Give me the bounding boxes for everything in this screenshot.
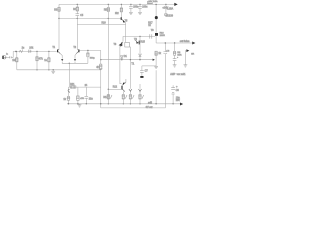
wire x140 above cup	[139, 84, 141, 89]
node dot line1 x108	[108, 18, 109, 19]
wire cup to glyph x130	[129, 91, 131, 94]
node dot x87.9	[87, 50, 88, 51]
svg-text:C8: C8	[176, 89, 180, 92]
shunt comp x37	[36, 51, 38, 56]
svg-text:R10: R10	[102, 23, 107, 25]
wire box bottom to line y59.7	[129, 47, 130, 60]
svg-text:R3: R3	[54, 9, 58, 11]
node dot y103.8 x173	[172, 103, 173, 104]
capacitor C in marks	[10, 56, 11, 58]
svg-text:R12: R12	[113, 86, 118, 88]
svg-text:AMP: AMP	[170, 73, 175, 76]
node dot bus x37	[36, 69, 37, 70]
svg-text:22u: 22u	[89, 98, 94, 101]
wire x68.5	[68, 87, 70, 96]
preset arrow x123.3	[125, 95, 127, 99]
transistor Q1	[121, 17, 128, 22]
svg-text:100n: 100n	[133, 7, 139, 9]
transistor T9 dark blob	[155, 33, 158, 36]
svg-text:15R: 15R	[177, 54, 181, 56]
svg-text:vox mk1: vox mk1	[177, 73, 187, 76]
capacitor x142	[140, 71, 144, 73]
resistor x156 mid	[155, 51, 158, 55]
capacitor x174.6	[174, 55, 176, 58]
svg-text:4k7: 4k7	[96, 66, 101, 69]
wire x156.4 lower	[155, 70, 157, 104]
svg-text:fused: fused	[147, 3, 153, 5]
svg-text:100u: 100u	[142, 7, 148, 9]
transistor arrow cup x130	[129, 89, 132, 92]
wire x156 from rail	[155, 4, 157, 16]
resistor x100.75	[100, 60, 102, 64]
svg-text:330p: 330p	[90, 58, 96, 60]
transistor T2 diff right	[76, 49, 79, 54]
node dot y43 x174.6	[174, 42, 175, 43]
capacitor C2 rail x131	[130, 4, 132, 6]
wire D1 stub	[121, 58, 123, 60]
wire T2 base line y50.5	[80, 51, 101, 60]
wire tail down	[68, 63, 70, 87]
resistor x174.6	[174, 43, 176, 51]
capacitor output C9 x173	[171, 86, 178, 90]
emitter resistor x140	[138, 95, 141, 100]
wire to rail	[139, 99, 141, 104]
transistor T7 dark blob	[155, 16, 158, 19]
squiggle cap x19-22	[19, 49, 22, 52]
wire C2 to gnd	[130, 8, 132, 12]
wire connector lead	[6, 56, 9, 58]
gap in x165 vertical for cap	[164, 52, 166, 54]
wire Q1 emitter down to box	[125, 22, 127, 42]
preset arrow x140	[142, 95, 144, 99]
svg-text:T8: T8	[134, 38, 137, 41]
node dot input x48.9	[48, 51, 49, 52]
svg-text:2k2: 2k2	[115, 13, 119, 15]
wire y65.9 line	[142, 65, 156, 67]
node dot bus gnd x53.2	[53, 69, 54, 70]
ground block	[79, 103, 81, 106]
wire C3 to gnd	[139, 8, 141, 12]
wire x77 column	[76, 4, 78, 7]
svg-text:1k: 1k	[63, 98, 66, 101]
shunt resistor x16.8	[16, 51, 18, 57]
wire to rail	[129, 99, 131, 104]
svg-text:470: 470	[80, 98, 84, 100]
cap x87.9	[87, 51, 89, 53]
svg-text:8R: 8R	[191, 53, 194, 55]
resistor x108 bottom	[107, 95, 110, 100]
node dot rail x108	[108, 4, 109, 5]
svg-text:out 8ohm: out 8ohm	[180, 40, 190, 43]
wire line1 y18.4	[59, 17, 121, 19]
wire x108 column top	[107, 4, 109, 7]
comp x77.9	[77, 87, 79, 96]
node dot	[77, 103, 78, 104]
node dot line1 x59	[58, 18, 59, 19]
svg-text:0.25A: 0.25A	[167, 8, 174, 11]
svg-text:BD139: BD139	[166, 14, 174, 17]
comp x68.5	[67, 96, 70, 100]
svg-text:T1: T1	[52, 47, 55, 49]
wire x156 mid	[155, 19, 157, 32]
wire T1 emitter	[60, 54, 62, 59]
wire cup to glyph x140	[139, 91, 141, 94]
wire line y59.7	[101, 59, 154, 61]
svg-text:1n: 1n	[44, 59, 47, 62]
wire to corner up	[11, 51, 13, 57]
wire ground bus y69.8	[17, 69, 101, 71]
wire to rail	[122, 99, 124, 104]
emitter resistor x123.3	[122, 95, 125, 100]
wire C1 down through line1 to line2 corner	[76, 16, 78, 25]
ground bus symbol	[52, 70, 54, 71]
svg-text:0V out: 0V out	[146, 106, 153, 109]
wire corner x123 down	[122, 36, 124, 41]
svg-text:T1: T1	[131, 62, 134, 65]
emitter arrow T2	[74, 59, 76, 61]
node dot input x37	[36, 51, 37, 52]
svg-text:R13: R13	[103, 97, 108, 99]
svg-text:D1: D1	[124, 55, 128, 58]
marks below C9	[172, 92, 175, 94]
wire tail bus	[62, 62, 88, 64]
wire D2 to line y59.7	[139, 56, 141, 59]
wire input line y51.4	[13, 50, 57, 52]
comp x86.3	[85, 87, 87, 96]
ground x185.4	[184, 65, 188, 67]
svg-text:T5: T5	[125, 21, 128, 23]
node dot bus x48.9	[48, 69, 49, 70]
wire y36.4 line	[123, 35, 155, 37]
svg-text:2u: 2u	[22, 47, 25, 50]
wire Q2 emitter down x120	[120, 47, 122, 84]
preset arrow x108	[110, 95, 112, 99]
svg-text:C5: C5	[80, 15, 84, 17]
plus marks cap	[177, 57, 178, 58]
svg-text:in: in	[6, 54, 8, 56]
svg-text:1k: 1k	[148, 25, 151, 27]
node dot rail x156	[155, 4, 156, 5]
wire lower rail y107.9	[101, 43, 166, 108]
node dot y59.7 x122	[121, 59, 122, 60]
node dot rail x131	[130, 4, 131, 5]
svg-text:T2: T2	[73, 47, 76, 49]
wire x59 down to T1	[58, 11, 60, 49]
resistor R5	[107, 8, 110, 12]
arrow tag x186	[186, 49, 189, 52]
svg-text:R11: R11	[70, 83, 75, 86]
wire x130 column down	[129, 60, 131, 89]
transistor T1 diff left	[58, 49, 61, 54]
emitter resistor x130	[129, 95, 132, 100]
svg-text:C7: C7	[145, 70, 149, 73]
left block top line y87.1	[69, 86, 101, 88]
plate dash x16.8	[15, 51, 17, 52]
arrow end y103.8	[180, 103, 183, 106]
wire to gnd	[174, 61, 176, 65]
node dot y59.7 x100.75	[100, 59, 101, 60]
wire C9 to rail	[172, 94, 174, 104]
dark bar tag x142	[140, 76, 143, 78]
svg-text:C6: C6	[166, 50, 170, 52]
transistor arrow cup x140	[139, 89, 142, 92]
ground x156	[154, 66, 158, 68]
capacitor C3 rail x140	[139, 4, 141, 6]
resistor R2	[76, 7, 79, 11]
svg-text:T9: T9	[151, 29, 154, 32]
node dot rail x123.3	[123, 103, 124, 104]
svg-text:47k: 47k	[39, 58, 44, 61]
transistor Q2	[114, 42, 124, 47]
node dot y43 x165	[165, 42, 166, 43]
wire top rail	[59, 3, 175, 5]
power arrow VCC	[174, 3, 177, 6]
wire stub above C9	[172, 85, 174, 87]
shunt comp x48.9	[48, 51, 50, 57]
svg-text:10k: 10k	[29, 46, 34, 49]
node supply tap x166	[165, 4, 167, 13]
node dot rail x166	[165, 4, 166, 5]
wire R6 to Q1	[120, 12, 122, 17]
wire x156 resistor to gnd	[155, 55, 157, 66]
node dot y59.7 x140	[139, 59, 140, 60]
node dot	[68, 103, 69, 104]
node dot	[86, 103, 87, 104]
svg-text:R15: R15	[141, 41, 146, 44]
wire x140 from y36.4 to cluster	[139, 36, 141, 53]
diode D2 x140	[139, 54, 142, 56]
node dot line1 x77	[77, 18, 78, 19]
wire Q3 emitter down x123.3	[122, 91, 124, 94]
wire x185.4 to gnd	[185, 51, 186, 65]
preset arrow x130	[132, 95, 134, 99]
resistor R1	[57, 7, 60, 11]
emitter arrow T1	[61, 59, 63, 61]
node dot x100.75 y103.8	[100, 103, 101, 104]
transistor Q3 output	[122, 79, 126, 92]
blob end y59.7	[153, 59, 155, 61]
wire collector column Q-left x59	[58, 4, 60, 7]
cluster T8 x140 top	[134, 38, 139, 45]
diode D1 x122 above line	[121, 56, 124, 58]
node dot y59.7 x130	[130, 59, 131, 60]
wire R2 to C1	[76, 11, 78, 14]
wire x142 to tag	[141, 72, 143, 76]
svg-text:220R: 220R	[160, 35, 166, 37]
svg-text:a45: a45	[148, 102, 153, 105]
capacitor x165	[164, 52, 168, 54]
node dot y36.4 x140	[139, 36, 140, 37]
arrow end y43 output	[192, 42, 195, 45]
wire line2 y24.5 bootstrap	[77, 24, 126, 26]
node dot rail x77	[77, 4, 78, 5]
svg-text:24: 24	[85, 85, 88, 87]
node dot rail x140	[139, 103, 140, 104]
capacitor C6 on y36.4	[150, 34, 152, 38]
node dot x108 rail bottom	[108, 103, 109, 104]
wire x156 to line y43	[155, 36, 157, 43]
node dot tail	[69, 63, 70, 64]
wire x108 long vertical	[107, 12, 109, 104]
ground C2	[129, 12, 133, 14]
ground x174.6	[173, 65, 177, 67]
wire T2 emitter	[75, 54, 76, 59]
plates x28-31.7	[29, 50, 31, 53]
wire node line y103.8	[67, 103, 180, 105]
wire T2 collector up	[76, 25, 78, 50]
J curve	[68, 89, 70, 92]
transistor Q1 collector resistor R6	[120, 4, 122, 7]
svg-text:T6: T6	[114, 44, 117, 46]
node dot rail x140	[139, 4, 140, 5]
box Vbe multiplier	[125, 42, 130, 47]
svg-text:1M: 1M	[12, 59, 15, 62]
node dot rail x121	[121, 4, 122, 5]
wire x142 down	[141, 66, 143, 70]
input connector J1	[2, 56, 6, 59]
svg-text:25V: 25V	[176, 100, 181, 102]
node dot y103.8 x156	[155, 103, 156, 104]
capacitor C1	[76, 14, 80, 16]
lamp circle	[165, 13, 168, 16]
wire line base y89.3	[108, 88, 121, 90]
svg-text:1k: 1k	[158, 52, 161, 55]
wire output line y43	[156, 42, 192, 44]
ground C3	[138, 12, 142, 14]
node dot x108 y89	[108, 89, 109, 90]
node dot rail x130	[130, 103, 131, 104]
resistor on line	[70, 85, 76, 88]
